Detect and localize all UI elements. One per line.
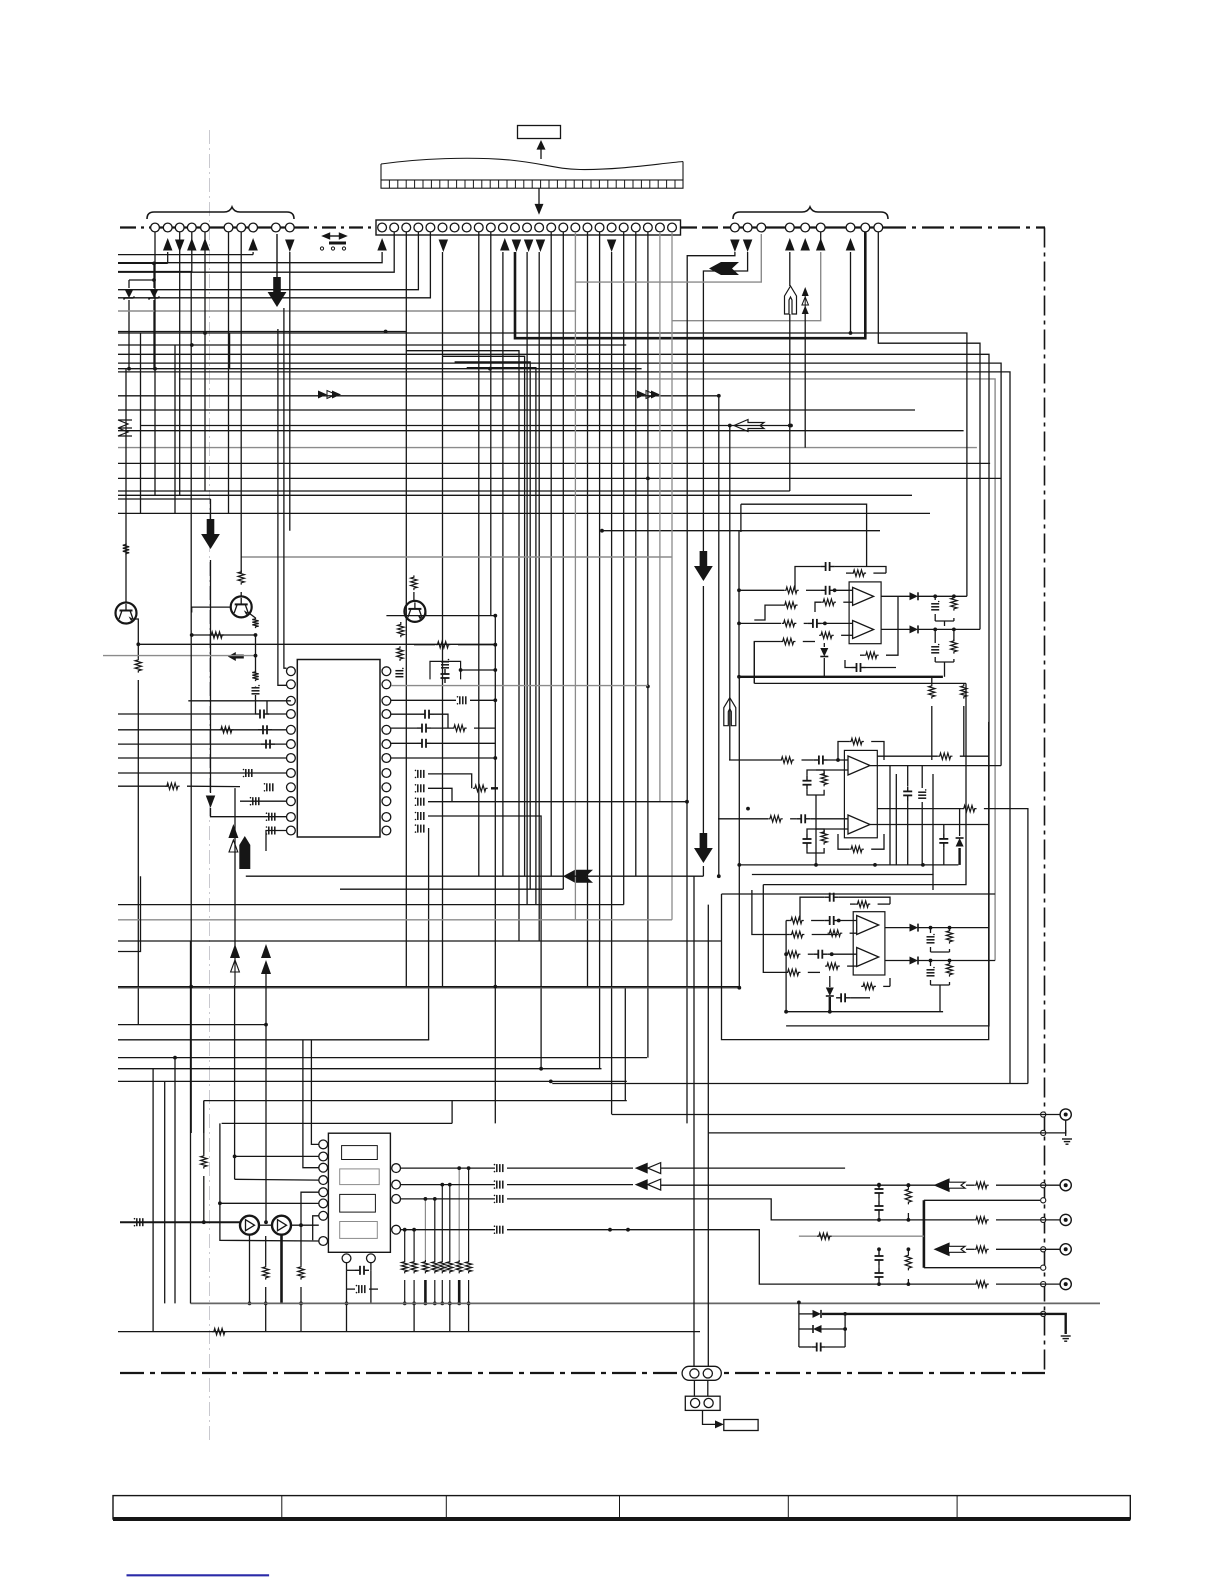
wire U4A out — [885, 927, 910, 929]
junction — [921, 863, 925, 867]
wire — [959, 809, 961, 836]
wire bus under cluster2 — [739, 864, 958, 866]
junction — [424, 1302, 428, 1306]
wire bank bottom — [458, 1280, 460, 1303]
arrow fill jack4 — [935, 1243, 949, 1255]
wire — [886, 596, 898, 655]
resistor R42 — [946, 929, 952, 944]
junction — [746, 807, 750, 811]
wire U5 out4 step — [507, 1230, 974, 1284]
U5 inner block 4 — [340, 1222, 378, 1239]
capacitor C19 — [415, 797, 424, 806]
wire — [291, 1224, 319, 1226]
resistor RB7 — [456, 1260, 462, 1273]
wire net N1 — [118, 333, 967, 596]
capacitor C31 — [803, 834, 812, 848]
wire bold stub — [491, 787, 498, 789]
pill pin 2 — [703, 1369, 712, 1378]
capacitor C42 — [355, 1266, 369, 1275]
op-amp U4B — [857, 948, 879, 967]
junction — [907, 1183, 911, 1187]
capacitor C4 — [261, 740, 275, 749]
wire drop — [635, 232, 637, 876]
connector pin P2-13 — [523, 223, 532, 232]
wire U2A out — [881, 595, 910, 597]
diode D9 — [910, 957, 919, 965]
junction — [737, 622, 741, 626]
wire drop — [611, 252, 613, 1115]
wire bus M4 — [118, 940, 722, 942]
wire 1267 — [924, 1267, 1040, 1269]
resistor R11 — [397, 646, 403, 661]
wire — [798, 1302, 800, 1347]
wire — [841, 634, 853, 636]
junction — [877, 1282, 881, 1286]
junction — [488, 367, 492, 371]
wire drop right 3 gray — [576, 234, 761, 282]
capacitor C18 — [415, 784, 424, 793]
wire bus M9 — [118, 1068, 602, 1070]
wire U5 feed L3 — [303, 1040, 319, 1168]
wire — [960, 755, 989, 757]
wire net N4 — [118, 363, 1001, 765]
wire bus M3 gray — [118, 919, 672, 921]
wire — [612, 1114, 694, 1116]
wire bold 1314 — [822, 1313, 1043, 1315]
capacitor C20 — [415, 812, 424, 821]
connector pin P1-8 — [249, 223, 258, 232]
wire drop — [490, 232, 492, 616]
wire — [790, 818, 796, 820]
U1 pin L5 — [287, 725, 296, 734]
arrow up — [248, 238, 258, 251]
connector pin P1-4 — [187, 223, 196, 232]
wire — [265, 1287, 267, 1332]
label box 2 — [724, 1420, 758, 1431]
wire — [850, 932, 857, 934]
capacitor C47 — [494, 1225, 503, 1234]
connector pin P3-4 — [785, 223, 794, 232]
resistor RB6 — [447, 1260, 453, 1273]
connector pin P1-1 — [151, 223, 160, 232]
wire bank bold1 — [424, 1280, 427, 1303]
capacitor C12 — [441, 669, 450, 683]
wire buffer1 down — [249, 1235, 251, 1304]
wire pin L9 — [118, 785, 168, 787]
blue rule — [127, 1574, 270, 1576]
bidirectional arrow symbol — [323, 233, 346, 244]
wire — [826, 1346, 845, 1348]
connector pin P2-9 — [474, 223, 483, 232]
flow arrow down B — [201, 519, 220, 549]
op-amp U4A — [857, 916, 879, 935]
wire — [458, 644, 495, 646]
wire drop left — [204, 232, 206, 491]
wire bus M12 — [222, 1122, 453, 1124]
wire E2 — [138, 643, 494, 645]
wire zener D2 top — [153, 263, 155, 288]
resistor R2 — [411, 575, 417, 590]
wire — [846, 572, 851, 574]
wire — [931, 984, 950, 986]
resistor R48 — [974, 1182, 989, 1188]
wire rail 739 — [738, 677, 740, 988]
capacitor C46 — [494, 1195, 503, 1204]
resistor R12 — [452, 725, 467, 731]
brace left connector group — [147, 207, 294, 219]
wire — [802, 759, 814, 761]
junction — [784, 1010, 788, 1014]
wire — [739, 622, 781, 624]
wire — [807, 790, 824, 795]
resistor R51 — [974, 1281, 989, 1287]
wire U3B out — [870, 824, 989, 826]
resistor R8 — [165, 783, 180, 789]
wire — [953, 596, 955, 598]
connector pin P2-2 — [390, 223, 399, 232]
capacitor C49 — [875, 1201, 884, 1215]
wire — [877, 808, 962, 810]
wire — [873, 572, 886, 574]
capacitor C5 — [243, 769, 252, 778]
U5 pin R3 — [392, 1195, 401, 1204]
wire — [255, 634, 257, 674]
wire net 687 — [687, 252, 735, 802]
wire net E4 — [428, 802, 687, 1124]
junction — [424, 1197, 428, 1201]
junction — [412, 1302, 416, 1306]
wire bank top — [424, 1199, 426, 1260]
wire net A4 — [118, 232, 430, 298]
wire rail 191 — [190, 272, 192, 1134]
wire — [391, 699, 456, 701]
U1 pin L4 — [287, 710, 296, 719]
wire — [877, 755, 938, 757]
capacitor C41 — [134, 1218, 143, 1227]
wire — [875, 1219, 974, 1221]
resistor R35 — [789, 917, 804, 923]
junction — [837, 919, 841, 923]
junction — [493, 668, 497, 672]
arrow up — [200, 238, 210, 251]
wire — [391, 757, 495, 759]
resistor R45 — [263, 1265, 269, 1280]
wire net U1x — [752, 875, 933, 891]
wire bank bottom — [404, 1280, 406, 1303]
wire — [267, 701, 286, 714]
wire — [921, 766, 923, 788]
capacitor C33 — [918, 789, 926, 798]
wire bus M10 — [118, 1080, 627, 1082]
junction — [152, 262, 156, 266]
connector pin P3-8 — [861, 223, 870, 232]
connector pin P2-4 — [414, 223, 423, 232]
hollow-filled arrow left jack4 — [935, 1243, 965, 1255]
wire — [391, 742, 417, 744]
wire drop — [671, 232, 673, 920]
U5 pin L2 — [319, 1152, 328, 1161]
wire bus C11 — [118, 490, 790, 492]
wire — [754, 605, 783, 620]
junction — [608, 1228, 612, 1232]
resistor R10 — [436, 642, 451, 648]
wire rail 140a — [140, 333, 142, 513]
arrow down — [536, 240, 546, 253]
junction — [849, 331, 853, 335]
resistor R17 — [821, 599, 836, 605]
U5 pin L4 — [319, 1176, 328, 1185]
capacitor C8 — [266, 812, 275, 821]
wire zener link — [129, 279, 154, 281]
wire — [919, 628, 981, 630]
resistor R43 — [946, 962, 952, 977]
junction — [299, 1302, 303, 1306]
buffer A2 — [272, 1216, 291, 1235]
bottom border dash-dot — [120, 1372, 1045, 1374]
wire drop left — [179, 232, 181, 495]
wire bank top — [441, 1185, 443, 1260]
wire bank top — [404, 1230, 406, 1260]
wire net to arrowB — [118, 498, 211, 500]
wire — [878, 1249, 880, 1251]
arrow down — [512, 240, 522, 253]
wire drop left — [154, 232, 156, 495]
connector pin P3-1 — [731, 223, 740, 232]
connector pin P3-6 — [816, 223, 825, 232]
top border right segment — [884, 226, 1045, 228]
resistor R37 — [828, 930, 843, 936]
wire drop right 4b — [789, 314, 791, 491]
wire — [707, 1380, 709, 1396]
arrow up — [163, 238, 173, 251]
connector pin P2-24 — [656, 223, 665, 232]
wire — [400, 622, 402, 623]
arrow down small — [206, 796, 216, 809]
wire rail 740b — [740, 504, 742, 532]
wire bus C10 — [118, 477, 1001, 479]
U1 pin R1 — [382, 667, 391, 676]
revision table — [113, 1496, 1130, 1519]
brace right connector group — [733, 207, 888, 219]
wire gray bus 557 — [241, 556, 672, 558]
jack J4 — [1060, 1244, 1071, 1255]
arrow pair left out2 — [635, 1179, 661, 1190]
wire net N3 — [118, 354, 989, 756]
diode D3 — [820, 648, 828, 657]
capacitor C35 — [825, 893, 839, 902]
junction — [345, 1302, 349, 1306]
junction — [784, 952, 788, 956]
capacitor C22 — [821, 562, 835, 571]
wire drop — [442, 252, 444, 987]
wire — [431, 727, 452, 729]
wire — [827, 953, 856, 955]
wire bus M2b — [340, 888, 563, 890]
wire U5 feed L4 — [235, 1178, 319, 1181]
wire — [944, 662, 946, 677]
connector pin P2-23 — [643, 223, 652, 232]
capacitor C44 — [494, 1164, 503, 1173]
wire — [461, 669, 496, 671]
wire — [949, 949, 951, 952]
connector pin P2-8 — [462, 223, 471, 232]
junction — [264, 1302, 268, 1306]
U1 pin L10 — [287, 797, 296, 806]
wire bank top — [413, 1230, 415, 1260]
small circles on border — [1041, 1112, 1046, 1117]
switch contacts — [320, 247, 345, 250]
capacitor C48 — [875, 1184, 884, 1198]
capacitor C32 — [903, 786, 912, 800]
wire — [919, 595, 967, 597]
wire — [470, 699, 495, 701]
wire net V495 — [494, 616, 496, 1124]
wire — [431, 742, 495, 744]
flex cable ticks — [389, 180, 675, 188]
connector pin P2-5 — [426, 223, 435, 232]
wire bus C12 — [118, 494, 912, 496]
wire drop right 2 — [703, 252, 747, 551]
wire drop — [478, 232, 480, 876]
wire — [847, 965, 857, 967]
flex cable — [381, 158, 683, 188]
wire — [907, 1185, 909, 1187]
wire Q2 emitter — [248, 613, 255, 619]
connector pin P2-6 — [438, 223, 447, 232]
wire bank top — [468, 1168, 470, 1260]
junction — [626, 1228, 630, 1232]
junction — [737, 588, 741, 592]
junction — [600, 529, 604, 533]
wire rail 175b — [174, 1058, 176, 1304]
wire — [878, 1198, 880, 1201]
resistor RB1 — [402, 1260, 408, 1273]
wire U5 out4 — [401, 1229, 496, 1231]
wire drop — [538, 252, 540, 941]
arrow up Q — [261, 944, 271, 974]
wire bank bottom — [424, 1280, 426, 1303]
junction — [717, 394, 721, 398]
capacitor C52 — [812, 1343, 826, 1352]
wire U5 out2 — [401, 1184, 496, 1186]
wire U5 out3 — [401, 1198, 496, 1200]
wire — [1047, 1130, 1066, 1133]
wire drop — [550, 232, 552, 876]
connector pin P2-7 — [450, 223, 459, 232]
wire — [889, 978, 891, 986]
wire — [944, 621, 946, 626]
junction — [493, 756, 497, 760]
wire — [835, 589, 853, 591]
resistor R39 — [786, 969, 801, 975]
page fold line — [209, 130, 211, 1440]
capacitor C16 — [417, 739, 431, 748]
ground jack1 — [1062, 1139, 1072, 1144]
wire into buffers — [120, 1221, 240, 1223]
IC U1 — [297, 660, 380, 838]
wire — [883, 985, 890, 987]
capacitor C43 — [356, 1285, 365, 1294]
U1 pin L6 — [287, 740, 296, 749]
junction — [264, 1023, 268, 1027]
right border dash-dot — [1044, 228, 1046, 1374]
wire drop — [647, 232, 649, 1058]
connector pin P2-22 — [631, 223, 640, 232]
junction — [440, 1302, 444, 1306]
wire bus C8 gray — [118, 447, 977, 449]
wire Q1 col — [125, 369, 127, 602]
arrows up N pair — [228, 824, 238, 852]
wire U5 feed L2 — [235, 1155, 319, 1157]
wire drop — [659, 232, 661, 802]
wire rail 694 — [693, 876, 695, 1366]
wire rail 153 — [152, 1069, 154, 1332]
arrow up — [377, 238, 387, 251]
wire — [816, 769, 848, 771]
wire drop — [502, 252, 504, 876]
wire bus M7 — [118, 1039, 429, 1041]
wire — [266, 831, 287, 852]
resistor R1 — [238, 570, 244, 585]
wire U5 feed L6 — [220, 1202, 319, 1204]
U1 pin R3 — [382, 696, 391, 705]
junction — [493, 698, 497, 702]
wire — [839, 920, 857, 922]
junction — [907, 1183, 911, 1187]
wire — [943, 825, 945, 835]
wire — [931, 706, 933, 760]
wire rail 922 — [921, 802, 923, 865]
resistor R15 — [784, 587, 799, 593]
junction — [797, 1301, 801, 1305]
capacitor C26 — [931, 601, 939, 610]
resistor R26 — [849, 738, 864, 744]
wire zener D1 down — [128, 300, 130, 369]
wire gray E3 — [391, 685, 648, 687]
wire — [810, 818, 848, 820]
wire bus C13 — [118, 512, 930, 514]
junction — [539, 1067, 543, 1071]
U5 inner block 1 — [342, 1146, 378, 1160]
wire — [739, 589, 784, 591]
wire rail 266 — [265, 974, 267, 1222]
junction — [929, 926, 933, 930]
arrow down — [730, 240, 740, 253]
U5 pin L5 — [319, 1188, 328, 1197]
wire zener D1 top — [128, 280, 130, 288]
wire arrowB cont — [210, 560, 212, 793]
wire — [878, 903, 890, 905]
resistor R49 — [974, 1217, 989, 1223]
wire bank top — [434, 1199, 436, 1260]
junction — [929, 959, 933, 963]
wire net U3x — [722, 893, 996, 895]
wire — [949, 928, 951, 931]
wire — [795, 567, 821, 591]
wire net L3 — [118, 271, 192, 273]
cap pair box — [430, 661, 461, 679]
junction — [457, 1166, 461, 1170]
resistor R7 — [219, 727, 234, 733]
wire — [807, 829, 824, 834]
junction — [299, 1223, 303, 1227]
wire — [474, 727, 495, 729]
wire — [907, 766, 909, 786]
wire — [369, 1288, 378, 1290]
U5 pin L3 — [319, 1163, 328, 1172]
wire — [192, 634, 256, 636]
wire drop — [599, 232, 601, 1069]
